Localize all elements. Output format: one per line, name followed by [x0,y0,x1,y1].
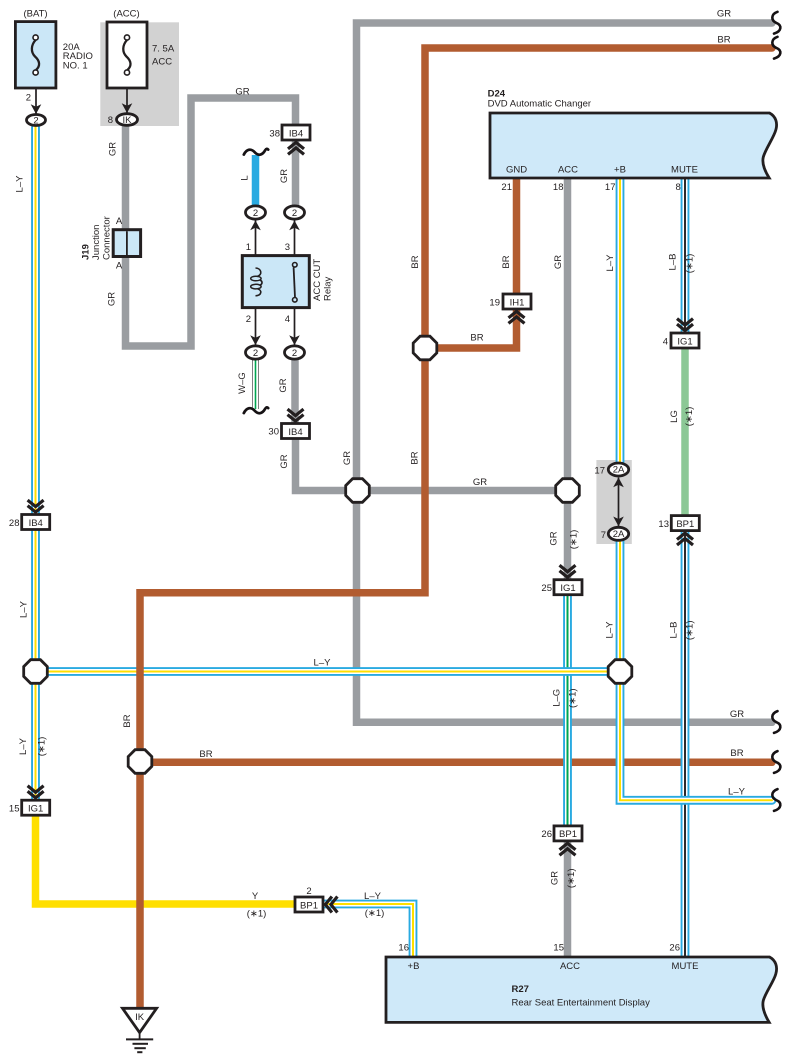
svg-text:GR: GR [235,87,249,98]
svg-text:(∗1): (∗1) [247,909,267,920]
svg-text:IB4: IB4 [289,128,303,139]
wire L-Y from 7 2A oval through O5 then right to break [620,541,772,800]
svg-text:Connector: Connector [102,216,113,260]
svg-text:L–Y: L–Y [364,891,382,902]
svg-text:(∗1): (∗1) [566,869,577,889]
wire GR horizontal between junctions O2 and O3 [358,487,568,495]
svg-text:A: A [116,216,123,227]
connector box 4 IG1 [671,333,699,348]
relay switch contact [294,268,295,298]
relay oval 2 above pin 1 [246,206,266,219]
svg-text:BP1: BP1 [300,900,318,911]
svg-text:IG1: IG1 [28,804,43,815]
svg-text:(∗1): (∗1) [684,407,695,427]
junction O6 BR [128,750,152,774]
svg-text:26: 26 [541,829,552,840]
connector box 30 IB4 [282,424,310,439]
svg-text:Relay: Relay [322,276,333,301]
break curl on GR top wire [772,12,780,34]
svg-text:IG1: IG1 [677,336,692,347]
fuse element BAT [32,40,39,70]
relay oval 2 below pin 4 [285,346,305,359]
connector box 25 IG1 [554,580,582,595]
svg-text:+B: +B [408,961,420,972]
svg-text:ACC: ACC [152,57,172,68]
arrowhead up into 17 2A oval [613,478,624,488]
svg-text:GR: GR [548,531,559,545]
ACC CUT relay box [242,256,309,308]
svg-text:+B: +B [614,165,626,176]
svg-text:W–G: W–G [237,372,248,394]
svg-text:2A: 2A [613,465,625,476]
connector box 2 BP1 [295,897,323,912]
svg-text:L–Y: L–Y [605,254,616,272]
connector box 28 IB4 [22,515,50,530]
svg-text:15: 15 [553,943,564,954]
svg-text:2: 2 [292,348,297,359]
junction O1 BR [413,336,437,360]
wire W-G stub below relay lower oval [252,360,259,409]
wire L-B from D24 MUTE pin 8 to 4 IG1 [681,178,690,334]
svg-text:L–B: L–B [668,254,679,271]
svg-text:L: L [239,175,250,180]
svg-text:30: 30 [268,427,279,438]
relay pin 1 lead [255,220,257,269]
break curl on L-Y lower-right wire [772,789,780,811]
svg-text:2A: 2A [613,529,625,540]
arrowhead into oval IK [122,103,133,113]
gray background pad of 2A connector pair [596,460,631,544]
svg-text:26: 26 [669,943,680,954]
svg-text:21: 21 [501,182,512,193]
svg-text:BR: BR [730,748,743,759]
break squiggle under W-G wire [244,407,268,413]
svg-text:BP1: BP1 [559,829,577,840]
wire L-Y from D24 +B pin 17 down to 17 2A oval [616,178,625,463]
svg-text:IG1: IG1 [560,583,575,594]
wire GR (*1) from 26 BP1 to R27 ACC pin 15 [564,841,572,957]
svg-text:L–Y: L–Y [605,621,616,639]
svg-text:2: 2 [253,348,258,359]
relay pin 4 lead [294,302,296,346]
connector box 15 IG1 [22,800,50,815]
svg-text:IH1: IH1 [510,297,525,308]
svg-text:2: 2 [292,208,297,219]
junction O4 L-Y [24,660,48,684]
arrowhead down into oval below relay pin 2 [250,335,261,345]
svg-text:BR: BR [410,451,421,464]
svg-text:16: 16 [398,943,409,954]
connector box 19 IH1 [503,294,531,309]
gray background pad of ACC fuse [100,22,179,126]
svg-text:BR: BR [717,35,730,46]
break squiggle on top of L wire [244,149,268,155]
svg-text:IB4: IB4 [29,518,43,529]
svg-text:13: 13 [658,519,669,530]
svg-text:BR: BR [122,714,133,727]
svg-text:17: 17 [605,182,616,193]
svg-text:GR: GR [342,451,353,465]
svg-text:2: 2 [33,115,38,126]
svg-text:MUTE: MUTE [671,165,698,176]
wire GR from 30 IB4 down to junction O2 [296,438,358,491]
svg-text:25: 25 [541,583,552,594]
svg-text:IB4: IB4 [288,427,302,438]
wire L solid blue stub above relay oval [252,155,260,206]
svg-text:Y: Y [252,891,259,902]
svg-text:BR: BR [501,255,512,268]
relay oval 2 below pin 2 [246,346,266,359]
svg-text:17: 17 [594,465,605,476]
ground symbol IK [123,1008,157,1032]
fuse 20A RADIO NO.1 box [15,22,56,88]
svg-text:GND: GND [506,165,527,176]
svg-text:8: 8 [108,115,113,126]
relay pin 2 lead [255,296,257,346]
svg-text:ACC: ACC [558,165,578,176]
svg-text:4: 4 [663,337,668,348]
svg-text:2: 2 [253,208,258,219]
svg-text:GR: GR [550,871,561,885]
svg-text:MUTE: MUTE [672,961,699,972]
thin lead from ACC fuse to oval IK [126,88,128,113]
wire GR long run: top horizontal, left vertical, lower-right horizontal to break [357,23,773,722]
svg-text:4: 4 [285,314,290,325]
link line between 17 2A and 7 2A ovals [618,478,620,527]
svg-text:NO. 1: NO. 1 [63,60,88,71]
wire BR from 19 IH1 down then left to junction O1 [425,308,517,348]
connector oval 8 IK below ACC fuse [117,114,138,126]
R27 Rear Seat Entertainment Display box [386,957,777,1022]
wire GR from D24 ACC pin 18 down through O3 to 25 IG1 [564,178,572,580]
wire GR from ACC fuse IK loop to 38 IB4 [126,98,296,346]
svg-text:(ACC): (ACC) [113,9,139,20]
svg-text:28: 28 [9,518,20,529]
svg-text:DVD Automatic Changer: DVD Automatic Changer [488,98,591,109]
connector box 13 BP1 [671,516,699,531]
svg-text:19: 19 [489,298,500,309]
svg-text:7: 7 [601,530,606,541]
svg-text:GR: GR [717,8,731,19]
wire BR from D24 GND pin 21 down to 19 IH1 [513,178,521,295]
svg-text:8: 8 [676,182,681,193]
connector box 38 IB4 [282,125,310,140]
wire L-G (*1) from 25 IG1 to 26 BP1 [563,594,572,826]
svg-text:(∗1): (∗1) [685,254,696,274]
svg-text:GR: GR [278,378,289,392]
svg-text:(BAT): (BAT) [23,9,47,20]
relay oval 2 above pin 3 [285,206,305,219]
junction O5 L-Y [608,660,632,684]
svg-text:GR: GR [107,292,118,306]
svg-text:R27: R27 [512,984,529,995]
svg-text:L–G: L–G [551,689,562,707]
svg-text:15: 15 [9,804,20,815]
wire Y yellow from 15 IG1 down then right to 2 BP1 [36,815,296,904]
svg-text:(∗1): (∗1) [37,737,48,757]
break curl on GR lower-right wire [772,711,780,733]
wire LG solid green from 4 IG1 to 13 BP1 [681,348,689,515]
svg-text:L–B: L–B [668,622,679,639]
svg-text:GR: GR [553,255,564,269]
svg-text:7. 5A: 7. 5A [152,44,175,55]
svg-text:38: 38 [269,129,280,140]
svg-text:IK: IK [135,1012,145,1023]
connector oval 17 2A [608,463,628,476]
arrowhead up into oval above relay pin 1 [250,221,261,231]
connector oval 7 2A [608,527,628,540]
svg-text:BP1: BP1 [676,519,694,530]
arrowhead down into 7 2A oval [613,517,624,527]
svg-text:Rear Seat Entertainment Displa: Rear Seat Entertainment Display [512,998,651,1009]
connector box 26 BP1 [554,826,582,841]
break curl on BR top wire [772,37,780,59]
relay coil [256,268,261,277]
D24 DVD Automatic Changer box [490,113,777,178]
svg-text:LG: LG [669,410,680,423]
svg-text:J19: J19 [81,244,92,260]
wire GR from relay lower oval to 30 IB4 [291,360,299,424]
arrowhead down into oval below relay pin 4 [289,335,300,345]
svg-text:ACC: ACC [560,961,580,972]
svg-text:(∗1): (∗1) [568,688,579,708]
svg-text:18: 18 [553,182,564,193]
wire L-Y main horizontal between junctions O4 and O5 [36,667,621,676]
fuse element ACC [123,40,130,70]
svg-text:1: 1 [246,242,251,253]
svg-text:L–Y: L–Y [314,658,332,669]
svg-text:(∗1): (∗1) [684,621,695,641]
junction O2 GR [346,479,370,503]
wire BR lower horizontal from junction O6 to right break [140,759,772,767]
break curl on BR lower-right wire [772,751,780,773]
svg-text:(∗1): (∗1) [569,530,580,550]
fuse 7.5A ACC box [107,22,147,88]
wire L-B (*1) from 13 BP1 down to R27 MUTE pin 26 [681,532,690,958]
svg-text:BR: BR [410,255,421,268]
svg-text:3: 3 [285,242,290,253]
svg-text:BR: BR [199,749,212,760]
wire L-Y (*1) from 2 BP1 right then down to R27 +B pin 16 [323,904,413,957]
svg-text:GR: GR [108,142,119,156]
junction connector J19 box [113,230,140,257]
svg-text:L–Y: L–Y [19,600,30,618]
svg-text:(∗1): (∗1) [365,908,385,919]
junction O3 GR [556,479,580,503]
wire BR main: top horizontal to break, vertical through O1, left jog, down through O6 to ground [140,48,772,1008]
arrowhead into BAT oval 2 [31,104,42,114]
svg-text:GR: GR [279,454,290,468]
svg-text:2: 2 [306,886,311,897]
svg-text:GR: GR [279,169,290,183]
relay pin 3 lead [294,220,296,263]
thin lead from BAT fuse to oval 2 [35,88,37,114]
arrowhead up into oval above relay pin 3 [289,221,300,231]
connector oval 2 below BAT fuse [27,115,46,126]
svg-text:GR: GR [730,709,744,720]
svg-text:L–Y: L–Y [18,737,29,755]
wire GR from 38 IB4 to relay connector oval [292,140,300,206]
svg-text:L–Y: L–Y [14,175,25,193]
svg-text:A: A [116,261,123,272]
svg-text:2: 2 [246,314,251,325]
svg-text:BR: BR [470,333,483,344]
svg-text:Junction: Junction [91,225,102,260]
svg-text:2: 2 [26,93,31,104]
J19 divider [126,231,128,255]
svg-text:IK: IK [123,115,133,126]
wire L-Y left vertical from BAT fuse oval down to 15 IG1 [31,127,40,801]
svg-text:GR: GR [473,477,487,488]
svg-text:L–Y: L–Y [728,787,746,798]
